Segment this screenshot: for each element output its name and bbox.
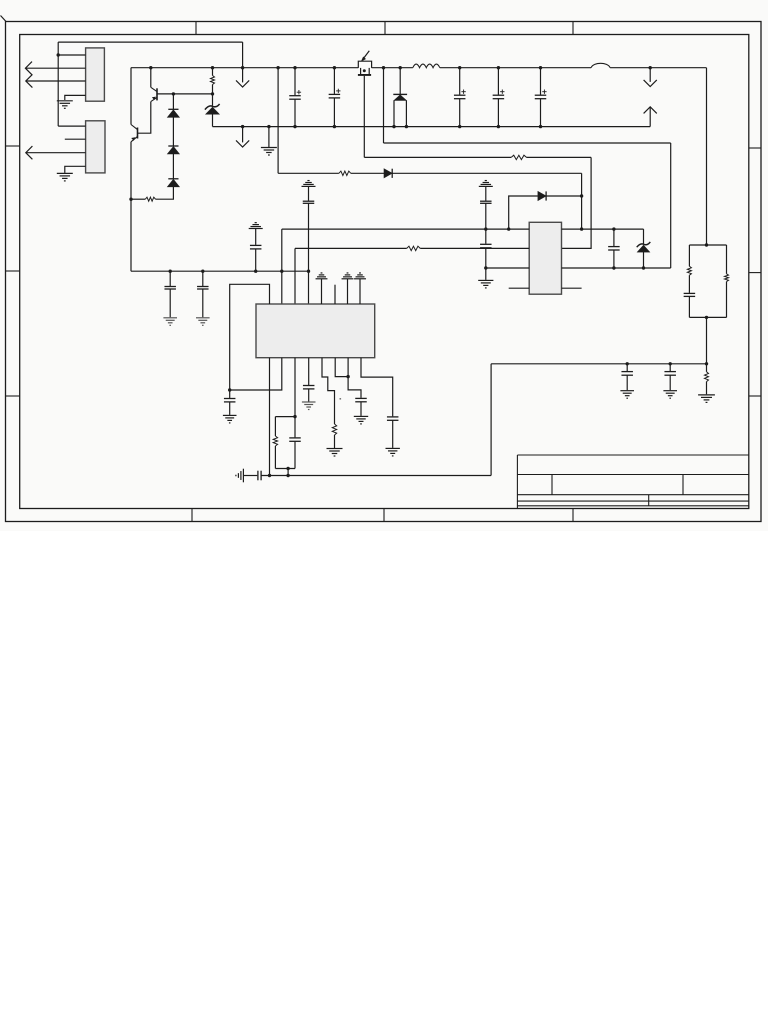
capacitor C5 + wires [540, 68, 542, 95]
top rail corner down to divider network [706, 68, 708, 245]
diode loop D6 [509, 196, 538, 229]
zone tick left 2 [6, 270, 20, 272]
zone tick top 3 [572, 22, 574, 35]
wire U1 pin bottom1 long [269, 358, 271, 476]
flag above U1 x321 [316, 273, 328, 279]
wire U2 left pin4 stub [509, 287, 530, 289]
node y364 C10 [669, 362, 672, 365]
ground pin4 [302, 402, 316, 410]
shield flag + caps column x486 [479, 181, 493, 187]
arrow mark on F1 [363, 51, 370, 60]
node lrail tentR [405, 125, 408, 128]
wire emitter junction to resistor R2 [131, 198, 145, 200]
diode D3 [168, 178, 178, 180]
ground J1 [57, 101, 73, 109]
wire network to y364 [706, 317, 708, 363]
flag above U1 x360 [354, 273, 366, 279]
IC U1 (controller) [256, 304, 375, 358]
ground C10 [663, 391, 677, 399]
zone tick bottom 1 [191, 509, 193, 522]
wire col282 vertical [281, 229, 283, 304]
ground pin8 cap [386, 448, 400, 456]
capacitor C9 to gnd [626, 364, 628, 371]
right branch R10 [726, 245, 728, 274]
node rail feed [241, 66, 244, 69]
RC network below U1 [275, 416, 295, 418]
node network top [705, 243, 708, 246]
wire Q1 base [157, 93, 213, 95]
zone tick right 2 [749, 272, 761, 274]
zone tick left 1 [6, 145, 20, 147]
zone tick right 3 [749, 395, 761, 397]
zone tick left 3 [6, 395, 20, 397]
node rail C2 [333, 66, 336, 69]
fuse/CT F1 on rail [358, 61, 371, 74]
node lrail C4 [497, 125, 500, 128]
node RC top [293, 415, 296, 418]
transistor Q1 (PNP) [151, 87, 157, 101]
off-page arrow down from lower rail [242, 127, 244, 143]
wire U1 pin bottom3 [294, 358, 296, 417]
connector J1 [86, 48, 105, 101]
stub above U1 x335 [334, 285, 336, 304]
port arrow IN3 [26, 152, 86, 154]
wire F1 tap down [363, 76, 365, 157]
wire U1 pin bottom4 cap to gnd [308, 358, 310, 385]
wire U1 top pin loop to bottom pin [230, 284, 270, 390]
node C-zener top [612, 227, 615, 230]
wire U1 pin bottom7 to cap gnd [348, 358, 361, 398]
node base-diodes [172, 92, 175, 95]
node y271 col282 [280, 270, 283, 273]
node rail C5 [539, 66, 542, 69]
wire gnd to cap [243, 475, 257, 477]
series capacitor C8 [258, 471, 261, 481]
wire D1-D2 [172, 117, 174, 146]
resistor R6 [273, 436, 277, 446]
capacitor C1 + wires [294, 68, 296, 96]
wire U1 pin bottom8 to cap gnd [361, 358, 393, 417]
wire column308 down to U1 [308, 203, 310, 304]
node y229 cap column [484, 227, 487, 230]
inner border frame [20, 35, 749, 509]
wire 581-vertical [581, 173, 583, 229]
node RC bottom [286, 467, 289, 470]
port arrow IN1 [25, 67, 85, 69]
node lrail C1 [293, 125, 296, 128]
bottom rail wire [261, 475, 491, 477]
ferrite bead FB1 [591, 63, 610, 67]
node y364 C9 [626, 362, 629, 365]
shield flag + cap column x256 [249, 223, 263, 229]
wire y173 with R3 and D5 [278, 172, 339, 174]
diode-tent D4 [399, 68, 401, 95]
ground x170 [163, 318, 177, 326]
ground on lower rail [268, 127, 270, 147]
wire J2 pin1 [58, 125, 85, 127]
wire R1 top [212, 68, 214, 76]
wire R1 bottom [212, 85, 214, 106]
off-page arrow down at rail end [649, 68, 651, 82]
sheet background [0, 0, 768, 531]
node lrail arrow2 [241, 125, 244, 128]
node y364 R8 [705, 362, 708, 365]
wire 591-vertical to U2 pin [562, 157, 592, 248]
node lrail gnd [267, 125, 270, 128]
diode D5 [384, 169, 392, 178]
zone tick top 1 [195, 22, 197, 35]
wire y271 emitter bus [131, 270, 309, 272]
node rail Dtent [399, 66, 402, 69]
wire U1 pin bottom5 staircase to R7 gnd [322, 358, 335, 424]
node y271 cap170 [169, 270, 172, 273]
node zener bottom [642, 266, 645, 269]
zone tick bottom 2 [383, 509, 385, 522]
node rail out-arrow [649, 66, 652, 69]
node lrail C5 [539, 125, 542, 128]
node pin6-7 join [346, 375, 349, 378]
node rail tap383 [382, 66, 385, 69]
node rail Q1C [149, 66, 152, 69]
capacitor C3 + wires [459, 68, 461, 95]
port arrow IN2 [26, 80, 86, 82]
ground loop cap [223, 415, 237, 423]
wire feed drop + off-page arrow down [242, 42, 244, 82]
connector J2 [86, 121, 105, 173]
capacitor C7 [294, 417, 296, 438]
node bottom rail pin1 [268, 474, 271, 477]
capacitor C10 to gnd [669, 364, 671, 371]
wire Q2 emitter down [130, 142, 132, 271]
capacitor to gnd x170 [169, 271, 171, 286]
node rail C1 [293, 66, 296, 69]
resistor R1 [211, 76, 215, 85]
node 581 pin wire [580, 227, 583, 230]
ground C9 [620, 391, 634, 399]
capacitor to gnd x203 [202, 271, 204, 286]
left branch R9 + C11 [688, 245, 690, 266]
ground left-pointing at bottom rail [236, 469, 244, 483]
node y271 cap203 [201, 270, 204, 273]
wire 383-vertical [383, 68, 385, 143]
diode D2 [168, 145, 178, 147]
wire diode string top [172, 94, 174, 109]
wire U2 left pin3 [486, 267, 529, 269]
diode D1 [168, 108, 178, 110]
wire D2-D3 [172, 154, 174, 179]
resistor R7 [332, 424, 336, 435]
node lrail tentL [392, 125, 395, 128]
lower rail [213, 126, 651, 128]
wire ZD1 to lower rail [212, 114, 214, 126]
wire J2 gnd pin [65, 166, 86, 173]
wire U2 left pin1 net y229 [282, 228, 529, 230]
shield flag + cap column x308 [302, 181, 316, 187]
node bottom rail RC [286, 474, 289, 477]
wire 670-vertical [670, 143, 672, 268]
wire U2 right pin4 stub [562, 287, 582, 289]
ground R7 [327, 449, 343, 457]
node C bottom [612, 266, 615, 269]
small dot artifact [340, 398, 342, 400]
resistor R5 [407, 246, 421, 250]
wire y143 feedback [384, 142, 671, 144]
wire 278-vertical [277, 68, 279, 174]
zener ZD2 [643, 229, 645, 244]
capacitor below loop node [229, 390, 231, 398]
node lrail C3 [458, 125, 461, 128]
wire U2 left pin2 net y248.4 with R5 [295, 247, 407, 249]
node lrail C2 [333, 125, 336, 128]
title block frame [517, 455, 748, 509]
transistor Q2 (NPN) [131, 125, 138, 142]
wire J1 gnd pin [65, 95, 86, 100]
resistor R8 to gnd [706, 364, 708, 372]
node rail R-zener [211, 66, 214, 69]
wire top feed horizontal [58, 41, 242, 43]
inductor L1 [413, 64, 440, 68]
capacitor C2 + wires [333, 68, 335, 94]
node emitter-resistor junction [129, 198, 132, 201]
node rail C3 [458, 66, 461, 69]
wire loop bottom to pin [230, 358, 282, 390]
top rail segment B [372, 67, 413, 69]
wire U2 right pin3 [562, 267, 671, 269]
ground column486 [478, 280, 493, 288]
zone tick top 2 [384, 22, 386, 35]
resistor R4 [511, 155, 526, 159]
top rail segment A [131, 67, 358, 69]
divider network frame [689, 244, 726, 246]
node rail tap278 [276, 66, 279, 69]
off-page arrow up to lower rail [644, 107, 657, 114]
wire R2 to diode string [156, 187, 174, 199]
wire J1 pin1 [58, 54, 85, 56]
wire Q2 collector to rail [130, 68, 132, 125]
top rail segment C [440, 67, 591, 69]
node y271 col256 [254, 270, 257, 273]
top rail segment D [610, 67, 706, 69]
resistor R3 [339, 171, 351, 175]
wire U1 pin bottom6 jog [335, 358, 348, 377]
wire J1 feed vertical [57, 42, 59, 126]
ground pin7 cap [354, 416, 368, 424]
node network bottom [705, 316, 708, 319]
outer border frame [6, 22, 762, 522]
wire F1 tap horizontal y157 with R4 [364, 156, 511, 158]
node base-R1 [211, 92, 214, 95]
bottom rail corner up [490, 364, 492, 476]
zone tick right 1 [749, 147, 761, 149]
RC bottom wire [275, 468, 295, 470]
zener ZD1 [205, 104, 220, 110]
node y229 diode loop [507, 227, 510, 230]
flag above U1 x347 [342, 273, 354, 279]
wire U2 right pin1 [562, 228, 644, 230]
node column486 y267 [484, 266, 487, 269]
wire Q1 collector [150, 68, 152, 88]
IC U2 (optocoupler) [529, 222, 561, 294]
node 581 diode loop [580, 194, 583, 197]
capacitor C4 + wires [497, 68, 499, 95]
wire Q1 emitter to Q2 base [138, 102, 151, 134]
node J1 pin1 [57, 53, 60, 56]
corner notch top-left [1, 16, 7, 22]
node rail C4 [497, 66, 500, 69]
zone tick bottom 3 [572, 509, 574, 522]
resistor R2 [145, 197, 155, 201]
ground R8 [698, 395, 715, 403]
capacitor C6 [613, 229, 615, 246]
node loop bottom [228, 388, 231, 391]
ground J2 [57, 173, 73, 181]
wire col296 vertical [294, 248, 296, 304]
wire J2 stub pin2 [65, 138, 86, 140]
wire y364 [491, 363, 706, 365]
node column308 y271 [307, 270, 310, 273]
ground x203 [196, 318, 210, 326]
